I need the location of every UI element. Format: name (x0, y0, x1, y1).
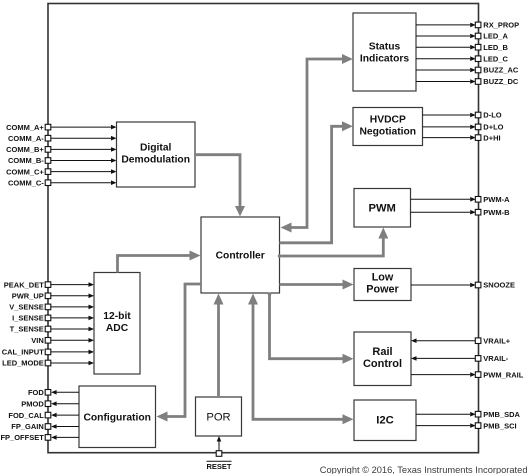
svg-text:I_SENSE: I_SENSE (12, 314, 44, 323)
svg-text:POR: POR (206, 411, 230, 423)
svg-text:CAL_INPUT: CAL_INPUT (2, 348, 45, 357)
svg-text:D+LO: D+LO (483, 123, 503, 132)
svg-text:D-LO: D-LO (483, 111, 501, 120)
svg-text:Low: Low (372, 272, 394, 284)
svg-text:RX_PROP: RX_PROP (483, 21, 519, 30)
svg-text:PMB_SCI: PMB_SCI (483, 421, 516, 430)
svg-text:COMM_B+: COMM_B+ (6, 145, 44, 154)
svg-text:HVDCP: HVDCP (370, 115, 406, 126)
svg-text:COMM_A-: COMM_A- (8, 134, 44, 143)
svg-text:FOD_CAL: FOD_CAL (8, 411, 44, 420)
svg-text:PWM: PWM (369, 203, 396, 215)
svg-text:LED_B: LED_B (483, 43, 508, 52)
svg-text:Configuration: Configuration (83, 413, 151, 424)
svg-text:BUZZ_DC: BUZZ_DC (483, 77, 519, 86)
svg-text:FP_GAIN: FP_GAIN (11, 422, 44, 431)
svg-text:ADC: ADC (106, 323, 129, 334)
svg-text:PWM-A: PWM-A (483, 195, 510, 204)
svg-text:RESET: RESET (206, 462, 231, 471)
svg-text:I2C: I2C (376, 415, 394, 427)
svg-text:COMM_C+: COMM_C+ (6, 167, 44, 176)
svg-text:VRAIL+: VRAIL+ (483, 336, 511, 345)
svg-text:FP_OFFSET: FP_OFFSET (0, 433, 44, 442)
svg-text:PWR_UP: PWR_UP (12, 292, 44, 301)
svg-text:FOD: FOD (28, 388, 44, 397)
svg-text:Control: Control (363, 358, 402, 370)
svg-text:12-bit: 12-bit (103, 311, 131, 322)
svg-text:Status: Status (369, 42, 401, 53)
svg-text:Rail: Rail (372, 346, 392, 358)
svg-text:PMOD: PMOD (21, 399, 44, 408)
svg-text:SNOOZE: SNOOZE (483, 281, 515, 290)
svg-text:PWM_RAIL: PWM_RAIL (483, 370, 523, 379)
svg-text:COMM_A+: COMM_A+ (6, 123, 44, 132)
svg-text:V_SENSE: V_SENSE (9, 303, 44, 312)
svg-text:T_SENSE: T_SENSE (10, 325, 44, 334)
svg-text:Demodulation: Demodulation (121, 155, 190, 166)
svg-text:D+HI: D+HI (483, 133, 500, 142)
svg-text:Copyright © 2016, Texas Instru: Copyright © 2016, Texas Instruments Inco… (320, 465, 527, 474)
svg-text:PEAK_DET: PEAK_DET (4, 280, 44, 289)
svg-text:LED_C: LED_C (483, 54, 508, 63)
svg-text:Digital: Digital (140, 143, 172, 154)
svg-text:COMM_B-: COMM_B- (8, 156, 44, 165)
svg-text:Controller: Controller (216, 251, 265, 262)
svg-text:PWM-B: PWM-B (483, 208, 510, 217)
svg-text:LED_A: LED_A (483, 32, 508, 41)
svg-text:PMB_SDA: PMB_SDA (483, 410, 520, 419)
svg-text:Indicators: Indicators (360, 54, 409, 65)
svg-text:COMM_C-: COMM_C- (8, 178, 44, 187)
svg-text:Negotiation: Negotiation (359, 127, 416, 138)
svg-text:BUZZ_AC: BUZZ_AC (483, 66, 519, 75)
svg-text:VRAIL-: VRAIL- (483, 354, 509, 363)
svg-text:VIN: VIN (31, 336, 44, 345)
svg-text:Power: Power (366, 284, 399, 296)
svg-text:LED_MODE: LED_MODE (2, 359, 44, 368)
